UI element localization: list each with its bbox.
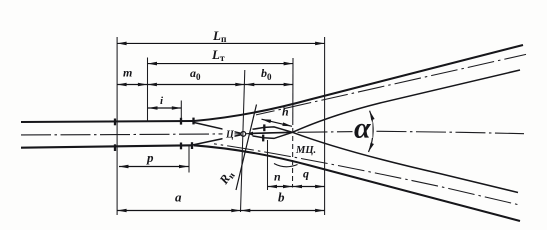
svg-text:Lт: Lт xyxy=(211,47,225,64)
svg-text:a: a xyxy=(175,190,182,205)
svg-text:p: p xyxy=(146,150,154,165)
svg-text:Rн: Rн xyxy=(216,168,237,189)
svg-text:h: h xyxy=(282,105,289,119)
svg-text:n: n xyxy=(274,170,281,184)
svg-text:b: b xyxy=(278,190,285,205)
svg-text:a0: a0 xyxy=(190,66,201,82)
svg-text:Ц: Ц xyxy=(225,129,235,140)
svg-text:α: α xyxy=(354,111,371,144)
svg-text:q: q xyxy=(303,167,309,181)
svg-text:Lп: Lп xyxy=(212,28,227,45)
svg-text:i: i xyxy=(160,95,164,107)
svg-text:b0: b0 xyxy=(261,66,272,82)
svg-text:m: m xyxy=(123,66,132,80)
svg-text:МЦ.: МЦ. xyxy=(295,145,316,156)
